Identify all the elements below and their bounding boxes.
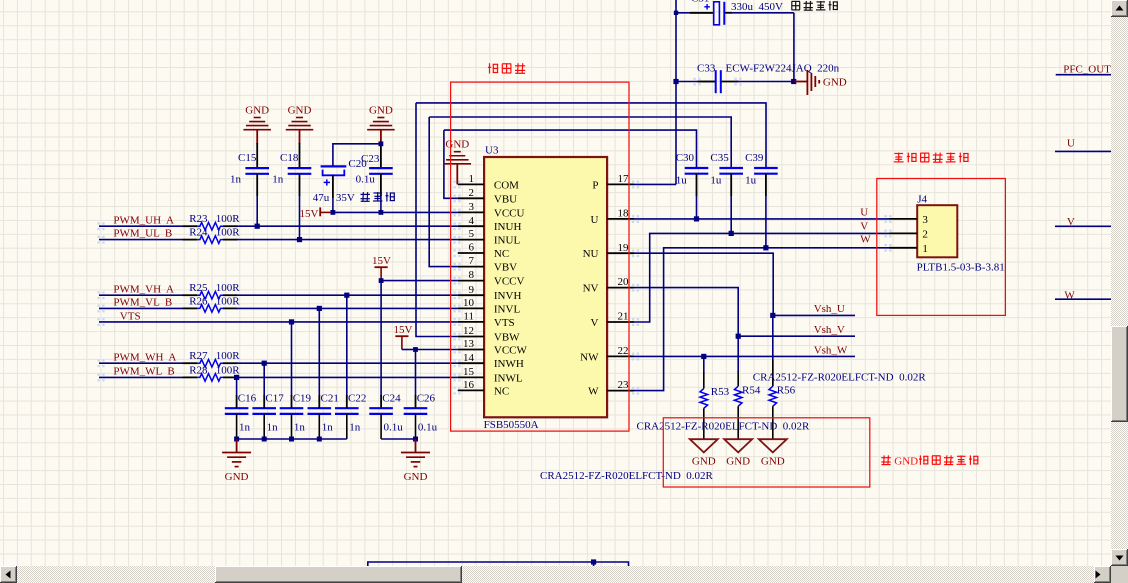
wire VBU net corner x444 to C30 top bbox=[444, 130, 697, 168]
wire NW down to R53 bbox=[703, 356, 705, 373]
junction C15 to INUH bbox=[255, 224, 260, 229]
svg-text:PWM_WH A: PWM_WH A bbox=[113, 351, 176, 363]
C20 bottom lead down to 15V wire bbox=[332, 175, 334, 198]
svg-text:3: 3 bbox=[469, 201, 475, 213]
svg-text:47u: 47u bbox=[313, 192, 330, 204]
junction C33 to GND bbox=[791, 79, 796, 84]
wire PWM_WL B row bbox=[99, 376, 183, 378]
svg-text:W: W bbox=[588, 386, 599, 398]
svg-text:C19: C19 bbox=[293, 393, 312, 405]
svg-text:15V: 15V bbox=[300, 208, 319, 220]
svg-text:INWL: INWL bbox=[494, 372, 523, 384]
svg-text:R54: R54 bbox=[742, 385, 761, 397]
svg-text:19: 19 bbox=[618, 242, 630, 254]
svg-text:20: 20 bbox=[618, 276, 630, 288]
junction Vsh_U bbox=[770, 313, 775, 318]
junction at P and C33 bbox=[673, 79, 678, 84]
capacitor C20 tantalum polarized bbox=[321, 165, 347, 167]
svg-text:3: 3 bbox=[922, 214, 928, 226]
resistor R23 bbox=[197, 222, 223, 230]
pin 11 VTS of U3 bbox=[458, 321, 484, 323]
compile mark left end of PWM_VL B bbox=[97, 305, 99, 307]
power ground right of C33 (rotated bar style) bbox=[794, 81, 808, 83]
svg-text:1n: 1n bbox=[294, 422, 306, 434]
wire bottom partial net bbox=[368, 562, 629, 566]
wire pin 8 VCCV bbox=[381, 280, 458, 282]
svg-text:1u: 1u bbox=[676, 175, 688, 187]
capacitor C31 polarized symbol bbox=[714, 2, 720, 25]
vertical scrollbar up button bbox=[1111, 0, 1128, 17]
svg-text:2: 2 bbox=[469, 187, 475, 199]
R56 lead to ground bbox=[772, 406, 774, 439]
svg-text:ECW-F2W224JAQ 220n: ECW-F2W224JAQ 220n bbox=[726, 62, 840, 74]
pin 1 COM of U3 bbox=[458, 183, 484, 185]
wire Vsh_V from R54 column bbox=[738, 335, 855, 337]
connector J4 body bbox=[917, 205, 957, 257]
svg-text:U3: U3 bbox=[485, 145, 499, 157]
red annotation box 接GND area bbox=[663, 418, 870, 487]
pin 17 P of U3 bbox=[607, 183, 634, 185]
junction at P and C31 bbox=[674, 11, 678, 15]
vertical scrollbar thumb bbox=[1111, 326, 1128, 422]
junction 15V at VCCW wire bbox=[413, 347, 418, 352]
svg-text:1: 1 bbox=[469, 173, 475, 185]
junction Vsh_V bbox=[736, 334, 741, 339]
capacitor C19 bbox=[280, 407, 304, 409]
svg-text:VTS: VTS bbox=[120, 311, 141, 323]
compile marks near C33 pins bbox=[693, 78, 695, 80]
svg-text:R56: R56 bbox=[777, 385, 796, 397]
svg-text:GND: GND bbox=[823, 77, 847, 89]
C39 lead down to W net bbox=[765, 174, 767, 196]
wire C16 up to INWL bbox=[236, 377, 238, 396]
wire PWM_WH A row bbox=[99, 362, 183, 364]
svg-text:NU: NU bbox=[583, 248, 599, 260]
svg-text:1n: 1n bbox=[349, 422, 361, 434]
svg-text:100R: 100R bbox=[216, 227, 241, 239]
svg-text:R53: R53 bbox=[711, 386, 730, 398]
capacitor C39 bootstrap bbox=[754, 167, 778, 169]
wire C19 up to VTS bbox=[291, 322, 293, 396]
capacitor C16 bbox=[225, 407, 249, 409]
svg-text:VCCV: VCCV bbox=[494, 276, 525, 288]
resistor R26 bbox=[197, 305, 223, 313]
svg-text:R23: R23 bbox=[189, 213, 208, 225]
svg-text:NC: NC bbox=[494, 385, 509, 397]
svg-text:COM: COM bbox=[494, 179, 519, 191]
capacitor C17 bbox=[252, 407, 276, 409]
pin 3 of J4 bbox=[890, 218, 918, 220]
wire 15V to pin 3 VCCU bbox=[333, 211, 458, 213]
svg-text:C15: C15 bbox=[238, 152, 257, 164]
svg-text:PWM_VH A: PWM_VH A bbox=[113, 283, 174, 295]
capacitor C18 bbox=[288, 167, 312, 169]
ground lead down to pin 1 bbox=[456, 164, 458, 185]
compile mark left end of PWM_WH A bbox=[97, 359, 99, 361]
plus sign of C20 bbox=[324, 181, 330, 183]
svg-text:PWM_WL B: PWM_WL B bbox=[113, 366, 174, 378]
svg-text:GND: GND bbox=[245, 105, 269, 117]
pin 12 VBW of U3 bbox=[458, 336, 484, 338]
power ground under C26 bbox=[415, 439, 417, 453]
svg-text:GND: GND bbox=[894, 455, 918, 467]
scrollbar corner bbox=[1111, 566, 1128, 583]
pin 2 of J4 bbox=[890, 232, 918, 234]
wire C21 up to INVL bbox=[318, 308, 320, 396]
compile mark left end of PWM_VH A bbox=[97, 291, 99, 293]
wire C22 up to INVH bbox=[346, 295, 348, 396]
svg-text:100R: 100R bbox=[216, 295, 241, 307]
capacitor C24 bbox=[369, 407, 393, 409]
svg-text:11: 11 bbox=[463, 311, 474, 323]
wire C33 row bbox=[676, 81, 715, 83]
ground lead down to C15 bbox=[256, 130, 258, 144]
svg-text:2: 2 bbox=[922, 229, 928, 241]
svg-text:330u 450V: 330u 450V bbox=[731, 1, 783, 13]
resistor R24 bbox=[197, 236, 223, 244]
svg-text:GND: GND bbox=[761, 455, 785, 467]
pin 13 VCCW of U3 bbox=[458, 349, 484, 351]
svg-text:U: U bbox=[860, 207, 868, 219]
wire VBU vertical down to pin 2 bbox=[444, 130, 458, 198]
horizontal scrollbar track bbox=[0, 566, 1111, 583]
horizontal scrollbar left button bbox=[0, 566, 17, 583]
capacitor C22 bbox=[335, 407, 359, 409]
svg-text:W: W bbox=[860, 234, 871, 246]
wire VBV vertical down to pin 7 bbox=[429, 117, 458, 267]
wire PWM_VH A row bbox=[99, 294, 183, 296]
junction C35 at V net bbox=[729, 231, 734, 236]
pin 10 INVL of U3 bbox=[458, 307, 484, 309]
junction C19 to VTS bbox=[289, 319, 294, 324]
compile mark left end of PWM_UL B bbox=[97, 236, 99, 238]
svg-text:Vsh_V: Vsh_V bbox=[814, 324, 845, 336]
svg-text:CRA2512-FZ-R020ELFCT-ND 0.02R: CRA2512-FZ-R020ELFCT-ND 0.02R bbox=[540, 470, 714, 482]
svg-text:0.1u: 0.1u bbox=[418, 422, 438, 434]
wire PWM_VL B row bbox=[99, 307, 183, 309]
capacitor C33 symbol bbox=[715, 70, 717, 93]
wire V net pin21 up and to J4 pin2 bbox=[634, 233, 890, 322]
svg-text:Vsh_W: Vsh_W bbox=[814, 344, 848, 356]
annotation chinese text 改封装 bbox=[489, 63, 491, 73]
ground lead down to C23 bbox=[380, 130, 382, 144]
wire NV pin20 to R54 column bbox=[634, 288, 738, 337]
svg-text:C17: C17 bbox=[265, 393, 284, 405]
wire from C31 down to C33 row bbox=[793, 13, 795, 82]
svg-text:7: 7 bbox=[469, 255, 475, 267]
svg-text:FSB50550A: FSB50550A bbox=[484, 419, 539, 431]
svg-text:1u: 1u bbox=[710, 175, 722, 187]
pin 15 INWL of U3 bbox=[458, 376, 484, 378]
junction C21 to INVL bbox=[317, 306, 322, 311]
svg-text:GND: GND bbox=[369, 105, 393, 117]
annotation chinese text 钽电容 bbox=[361, 193, 370, 195]
svg-text:VTS: VTS bbox=[494, 317, 515, 329]
wire NU down to R56 bbox=[772, 315, 774, 386]
wire P pin17 to C31/C33 bus bbox=[634, 183, 676, 185]
red annotation box around U3 改封装 bbox=[451, 82, 629, 431]
svg-text:100R: 100R bbox=[216, 364, 241, 376]
svg-text:8: 8 bbox=[469, 269, 475, 281]
svg-text:C26: C26 bbox=[417, 393, 436, 405]
wire VBW net from corner x416 to C39 top bbox=[416, 103, 766, 168]
svg-text:PFC_OUT: PFC_OUT bbox=[1063, 63, 1111, 75]
pin 3 VCCU of U3 bbox=[458, 211, 484, 213]
svg-text:R27: R27 bbox=[189, 350, 208, 362]
junction C20 bottom on 15V wire bbox=[331, 210, 336, 215]
svg-text:P: P bbox=[592, 179, 598, 191]
svg-text:INUL: INUL bbox=[494, 235, 521, 247]
svg-text:GND: GND bbox=[692, 455, 716, 467]
capacitor C26 bbox=[404, 407, 428, 409]
svg-text:1n: 1n bbox=[272, 174, 284, 186]
pin 8 VCCV of U3 bbox=[458, 280, 484, 282]
wire VTS row to pin 11 bbox=[99, 321, 458, 323]
pin 6 NC of U3 bbox=[458, 252, 484, 254]
svg-text:100R: 100R bbox=[216, 350, 241, 362]
svg-text:U: U bbox=[591, 214, 599, 226]
junction C30 at U net bbox=[694, 216, 699, 221]
compile mark left end of VTS bbox=[97, 318, 99, 320]
pin 19 NU of U3 bbox=[607, 252, 634, 254]
svg-text:15V: 15V bbox=[394, 324, 413, 336]
wire Vsh_U from R56 column bbox=[773, 314, 855, 316]
svg-text:C35: C35 bbox=[710, 152, 729, 164]
pin 23 W of U3 bbox=[607, 390, 634, 392]
svg-text:15V: 15V bbox=[372, 255, 391, 267]
svg-text:1n: 1n bbox=[322, 422, 334, 434]
ground bus under C16-C22 bbox=[236, 414, 238, 439]
svg-text:1u: 1u bbox=[745, 175, 757, 187]
pin 20 NV of U3 bbox=[607, 287, 634, 289]
svg-text:C22: C22 bbox=[348, 393, 366, 405]
pin 4 INUH of U3 bbox=[458, 225, 484, 227]
compile mark left end of PWM_UH A bbox=[97, 222, 99, 224]
node P bus vertical wire bbox=[675, 0, 677, 184]
C30 lead down to U net bbox=[696, 174, 698, 196]
wire C17 up to INWH bbox=[263, 363, 265, 396]
wire U net pin18 to J4 pin3 bbox=[634, 218, 890, 220]
svg-text:VBU: VBU bbox=[494, 193, 517, 205]
svg-text:C31: C31 bbox=[691, 0, 709, 5]
svg-text:NV: NV bbox=[583, 283, 599, 295]
svg-text:VCCW: VCCW bbox=[494, 345, 528, 357]
svg-text:PLTB1.5-03-B-3.81: PLTB1.5-03-B-3.81 bbox=[917, 261, 1005, 273]
svg-text:C20: C20 bbox=[348, 158, 367, 170]
C23 lead down to 15V wire bbox=[380, 174, 382, 196]
compile mark left end of PWM_WL B bbox=[97, 374, 99, 376]
svg-text:INVH: INVH bbox=[494, 290, 522, 302]
junction C16 to INWL bbox=[234, 375, 239, 380]
svg-text:PWM_UH A: PWM_UH A bbox=[113, 214, 174, 226]
junction on bottom wire bbox=[591, 559, 596, 564]
wire VBV net corner x429 to C35 top bbox=[429, 117, 731, 168]
svg-text:23: 23 bbox=[618, 379, 630, 391]
ground triangle at x=703.8 bbox=[690, 439, 718, 452]
resistor R25 bbox=[197, 291, 223, 299]
horizontal scrollbar thumb bbox=[215, 566, 462, 583]
pin 5 INUL of U3 bbox=[458, 239, 484, 241]
C18 lead down to PWM_UL wire bbox=[299, 174, 301, 196]
junction C39 at W net bbox=[763, 245, 768, 250]
junction R53 at NW/Vsh_W wire bbox=[701, 354, 706, 359]
junction C17 to INWH bbox=[262, 361, 267, 366]
svg-text:0.1u: 0.1u bbox=[356, 174, 376, 186]
C35 lead down to V net bbox=[730, 174, 732, 196]
wire PWM_UH A row bbox=[99, 225, 183, 227]
vertical scrollbar track bbox=[1111, 0, 1128, 566]
ground bus under C24 C26 bbox=[380, 414, 382, 439]
svg-text:5: 5 bbox=[469, 228, 475, 240]
svg-text:9: 9 bbox=[469, 284, 475, 296]
ground triangle at x=738.2 bbox=[724, 439, 752, 452]
svg-text:1n: 1n bbox=[267, 422, 279, 434]
capacitor C30 bootstrap bbox=[685, 167, 709, 169]
svg-text:GND: GND bbox=[404, 471, 428, 483]
svg-text:100R: 100R bbox=[216, 213, 241, 225]
ground triangle at x=772.8 bbox=[759, 439, 787, 452]
annotation chinese text 接GND 开尔文接法 bbox=[881, 457, 890, 459]
svg-text:C18: C18 bbox=[280, 152, 299, 164]
R54 lead to ground bbox=[737, 406, 739, 439]
capacitor C23 bbox=[369, 167, 393, 169]
svg-text:100R: 100R bbox=[216, 282, 241, 294]
resistor R28 bbox=[197, 374, 223, 382]
pin 7 VBV of U3 bbox=[458, 266, 484, 268]
svg-text:V: V bbox=[591, 317, 599, 329]
capacitor C15 bbox=[245, 167, 269, 169]
svg-text:VBV: VBV bbox=[494, 262, 517, 274]
svg-text:4: 4 bbox=[469, 215, 475, 227]
svg-text:INVL: INVL bbox=[494, 303, 521, 315]
junction C22 to INVH bbox=[344, 293, 349, 298]
capacitor C21 bbox=[308, 407, 332, 409]
pin 9 INVH of U3 bbox=[458, 294, 484, 296]
svg-text:C30: C30 bbox=[676, 152, 695, 164]
C20 top lead over to C23 ground lead bbox=[333, 144, 381, 167]
svg-text:R28: R28 bbox=[189, 364, 208, 376]
svg-text:GND: GND bbox=[288, 105, 312, 117]
wire NW pin22 / Vsh_W row bbox=[634, 355, 855, 357]
svg-text:C21: C21 bbox=[321, 393, 339, 405]
svg-text:0.1u: 0.1u bbox=[384, 422, 404, 434]
svg-text:C33: C33 bbox=[697, 62, 716, 74]
svg-text:VBW: VBW bbox=[494, 332, 520, 344]
wire C31 row bbox=[676, 12, 714, 14]
annotation chinese text 电解电容 bbox=[792, 0, 801, 2]
op-amp U3 FSB50550A body bbox=[484, 157, 607, 417]
svg-text:CRA2512-FZ-R020ELFCT-ND 0.02R: CRA2512-FZ-R020ELFCT-ND 0.02R bbox=[753, 372, 927, 384]
resistor R53 bbox=[700, 389, 708, 409]
annotation chinese text 换大的接插件 bbox=[894, 153, 903, 155]
wire pin 13 VCCW bbox=[416, 349, 458, 351]
pin 1 of J4 bbox=[890, 247, 918, 249]
svg-text:CRA2512-FZ-R020ELFCT-ND 0.02R: CRA2512-FZ-R020ELFCT-ND 0.02R bbox=[637, 420, 811, 432]
pin 21 V of U3 bbox=[607, 321, 634, 323]
svg-text:GND: GND bbox=[225, 471, 249, 483]
svg-text:10: 10 bbox=[463, 297, 475, 309]
svg-text:35V: 35V bbox=[336, 192, 355, 204]
C15 lead down to PWM_UH wire bbox=[256, 174, 258, 196]
svg-text:21: 21 bbox=[618, 311, 629, 323]
ground lead down to C18 bbox=[299, 130, 301, 144]
svg-text:U: U bbox=[1067, 138, 1075, 150]
wire 15V down to C24 bbox=[380, 281, 382, 396]
svg-text:R24: R24 bbox=[189, 227, 208, 239]
svg-text:C16: C16 bbox=[238, 393, 257, 405]
svg-text:PWM_UL B: PWM_UL B bbox=[113, 228, 172, 240]
capacitor C35 bootstrap bbox=[719, 167, 743, 169]
svg-text:PWM_VL B: PWM_VL B bbox=[113, 297, 172, 309]
wire NU pin19 to R56 column bbox=[634, 253, 773, 315]
wire VCCW down to C26 bbox=[415, 350, 417, 397]
power ground under C16 bbox=[236, 439, 238, 453]
svg-text:14: 14 bbox=[463, 352, 475, 364]
resistor R56 bbox=[769, 386, 777, 406]
svg-text:C39: C39 bbox=[745, 152, 764, 164]
junction C20 top at C23 ground lead bbox=[379, 141, 384, 146]
svg-text:1n: 1n bbox=[230, 174, 242, 186]
svg-text:INUH: INUH bbox=[494, 221, 522, 233]
pin 16 NC of U3 bbox=[458, 389, 484, 391]
svg-text:1n: 1n bbox=[239, 422, 251, 434]
svg-text:NW: NW bbox=[580, 351, 599, 363]
svg-text:VCCU: VCCU bbox=[494, 207, 525, 219]
svg-text:INWH: INWH bbox=[494, 358, 524, 370]
svg-text:1: 1 bbox=[922, 243, 928, 255]
svg-text:15: 15 bbox=[463, 366, 475, 378]
junction C23 bottom on 15V wire bbox=[379, 210, 384, 215]
plus sign of C31 bbox=[704, 6, 710, 8]
svg-text:16: 16 bbox=[463, 379, 475, 391]
svg-text:17: 17 bbox=[618, 173, 630, 185]
resistor R27 bbox=[197, 359, 223, 367]
junction 15V at VCCV wire bbox=[379, 278, 384, 283]
svg-text:NC: NC bbox=[494, 248, 509, 260]
vertical scrollbar down button bbox=[1111, 549, 1128, 566]
horizontal scrollbar right button bbox=[1094, 566, 1111, 583]
svg-text:V: V bbox=[860, 221, 868, 233]
svg-text:R25: R25 bbox=[189, 282, 208, 294]
wire W net pin23 up and to J4 pin1 bbox=[634, 248, 890, 391]
svg-text:13: 13 bbox=[463, 338, 475, 350]
wire VBW vertical down to pin 12 bbox=[416, 103, 458, 337]
svg-text:J4: J4 bbox=[917, 194, 927, 206]
wire PWM_UL B row bbox=[99, 239, 183, 241]
svg-text:R26: R26 bbox=[189, 295, 208, 307]
pin 18 U of U3 bbox=[607, 218, 634, 220]
wire NV down to R54 bbox=[737, 336, 739, 372]
svg-text:GND: GND bbox=[726, 455, 750, 467]
junction C18 to INUL bbox=[297, 237, 302, 242]
svg-text:C24: C24 bbox=[382, 393, 401, 405]
red annotation box around J4 bbox=[877, 179, 1006, 316]
svg-text:6: 6 bbox=[469, 242, 475, 254]
svg-text:18: 18 bbox=[618, 208, 630, 220]
svg-text:12: 12 bbox=[463, 325, 474, 337]
svg-text:22: 22 bbox=[618, 345, 629, 357]
R53 lead to ground bbox=[703, 408, 705, 439]
pin 2 VBU of U3 bbox=[458, 197, 484, 199]
pin 14 INWH of U3 bbox=[458, 362, 484, 364]
pin 22 NW of U3 bbox=[607, 355, 634, 357]
svg-text:GND: GND bbox=[445, 139, 469, 151]
resistor R54 bbox=[734, 386, 742, 406]
svg-text:Vsh_U: Vsh_U bbox=[814, 303, 845, 315]
